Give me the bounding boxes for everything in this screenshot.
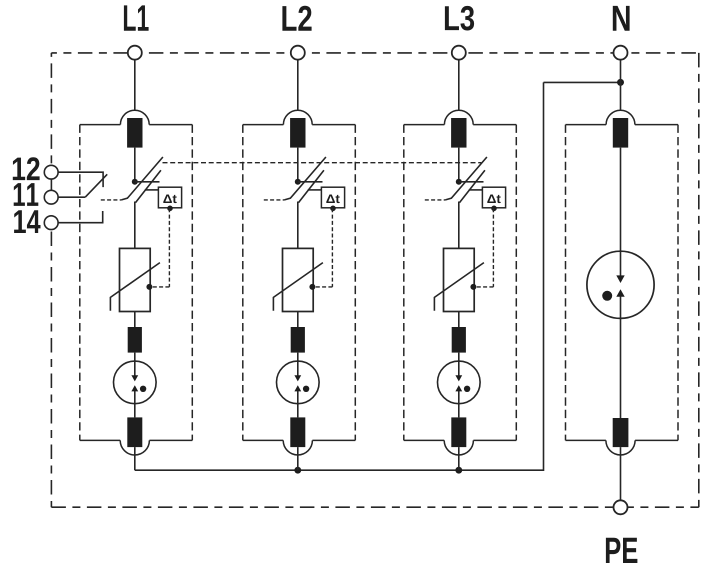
value label Δt L2 xyxy=(326,194,339,203)
wire block to spark gap L3 xyxy=(458,353,460,376)
Δt output node L2 xyxy=(330,206,336,212)
dashed mechanical linkage stub L2 xyxy=(264,199,285,201)
terminal N xyxy=(614,46,628,60)
wire remote signalling contact 12 xyxy=(58,172,103,187)
spark gap F3 L3 (triggered series gap) xyxy=(438,361,481,417)
wire L2 module to bottom bus xyxy=(297,447,299,470)
node label L1 xyxy=(124,5,149,30)
dashed mechanical linkage stub L1 xyxy=(101,199,122,201)
device enclosure right dashed edge xyxy=(698,53,700,507)
time delay element Δt box L2 xyxy=(321,187,344,208)
dynamic disconnector switch L1 xyxy=(121,157,162,203)
protection module box L1: dashed sides, solid top/bottom with terminal arcs xyxy=(80,110,193,455)
wire varistor to mid block L2 xyxy=(297,312,299,328)
protection module box N: dashed sides, solid top/bottom with terminal arcs xyxy=(566,110,679,455)
disconnect element mid L2 (black block) xyxy=(291,327,305,353)
wire disconnector to varistor L2 xyxy=(297,202,299,249)
wire block to disconnector L3 xyxy=(458,148,460,182)
wire L3 terminal to module xyxy=(458,59,460,110)
wire L3 module to bottom bus xyxy=(458,447,460,470)
wire remote signalling contact 14 xyxy=(58,211,103,223)
junction L3 branch on bottom bus xyxy=(455,467,462,474)
wire disconnector to varistor L3 xyxy=(458,202,460,249)
varistor monitoring tap junction L3 xyxy=(470,284,476,290)
dashed control line Δt to varistor tap L2 xyxy=(314,208,332,287)
wire block to disconnector L1 xyxy=(134,148,136,182)
thermal disconnect element top L2 (black block) xyxy=(290,118,305,148)
varistor monitoring tap junction L2 xyxy=(309,284,315,290)
device enclosure top dashed edge xyxy=(51,52,698,54)
terminal label 12 xyxy=(13,157,40,180)
wire varistor to mid block L1 xyxy=(134,312,136,328)
junction L2 branch on bottom bus xyxy=(294,467,301,474)
terminal L3 xyxy=(452,46,466,60)
varistor RV3 (MOV) L3 xyxy=(434,248,484,311)
node label N xyxy=(613,6,630,31)
wire block to disconnector L2 xyxy=(297,148,299,182)
terminal L2 xyxy=(291,46,305,60)
varistor monitoring tap junction L1 xyxy=(146,284,152,290)
Δt output node L1 xyxy=(167,206,173,212)
spark gap F1 L1 (triggered series gap) xyxy=(114,361,157,417)
spark gap F2 L2 (triggered series gap) xyxy=(277,361,320,417)
dynamic disconnector switch L3 xyxy=(445,157,487,203)
wire block to spark gap L2 xyxy=(297,353,299,376)
disconnector fixed contact junction L1 xyxy=(132,179,138,185)
trip linkage dashed bus coupling L1-L3 disconnectors xyxy=(163,162,482,164)
protection module box L3: dashed sides, solid top/bottom with terminal arcs xyxy=(404,110,517,455)
dashed mechanical linkage stub L3 xyxy=(425,199,446,201)
terminal label 11 xyxy=(14,183,39,206)
node label L3 xyxy=(445,6,474,31)
wire N module to PE terminal xyxy=(620,447,622,501)
wire L1 module to bottom bus xyxy=(134,447,136,470)
wire L2 terminal to module xyxy=(297,59,299,110)
value label Δt L1 xyxy=(163,194,176,203)
thermal disconnect element bottom L2 (black block) xyxy=(290,417,305,447)
disconnector fixed contact junction L2 xyxy=(295,179,301,185)
node label PE xyxy=(606,538,637,563)
thermal disconnect element bottom L1 (black block) xyxy=(127,417,142,447)
changeover switch blade 11-12 xyxy=(85,174,107,197)
terminal 12 remote signalling xyxy=(44,165,58,179)
thermal disconnect element bottom L3 (black block) xyxy=(451,417,466,447)
wire riser to N junction xyxy=(544,81,621,83)
terminal PE xyxy=(614,500,628,514)
wire disconnector to varistor L1 xyxy=(134,202,136,249)
disconnect element mid L3 (black block) xyxy=(452,327,466,353)
value label Δt L3 xyxy=(487,194,500,203)
device enclosure left dashed edge xyxy=(50,53,52,164)
wire remote signalling contact 11 xyxy=(58,196,85,198)
wire varistor to mid block L3 xyxy=(458,312,460,328)
wire L1 terminal to module xyxy=(134,59,136,110)
terminal 14 remote signalling xyxy=(44,216,58,230)
time delay element Δt box L1 xyxy=(158,187,181,208)
terminal label 14 xyxy=(14,210,40,233)
node label L2 xyxy=(282,6,311,31)
varistor RV1 (MOV) L1 xyxy=(110,248,159,311)
thermal disconnect element top L3 (black block) xyxy=(451,118,466,148)
Δt output node L3 xyxy=(491,206,497,212)
thermal disconnect element top N (black block) xyxy=(613,118,628,148)
junction at N conductor xyxy=(617,79,624,86)
terminal 11 remote signalling xyxy=(44,190,58,204)
dashed control line Δt to varistor tap L1 xyxy=(151,208,169,287)
disconnect element mid L1 (black block) xyxy=(128,327,142,353)
disconnector fixed contact junction L3 xyxy=(456,179,462,185)
wire riser bus up to N node xyxy=(543,82,545,471)
time delay element Δt box L3 xyxy=(482,187,505,208)
terminal L1 xyxy=(128,46,142,60)
bottom bus wire to PE xyxy=(135,469,544,471)
varistor RV2 (MOV) L2 xyxy=(273,248,323,311)
thermal disconnect element top L1 (black block) xyxy=(127,118,142,148)
dashed control line Δt to varistor tap L3 xyxy=(475,208,493,287)
protection module box L2: dashed sides, solid top/bottom with terminal arcs xyxy=(243,110,355,455)
wire N block to spark gap xyxy=(620,148,622,276)
device enclosure bottom dashed edge xyxy=(51,506,698,508)
thermal disconnect element bottom N (black block) xyxy=(613,418,629,447)
wire N terminal into module xyxy=(620,59,622,110)
wire block to spark gap L1 xyxy=(134,353,136,376)
dynamic disconnector switch L2 xyxy=(284,157,326,203)
spark gap F4 N-PE (gas discharge tube) xyxy=(587,251,654,418)
